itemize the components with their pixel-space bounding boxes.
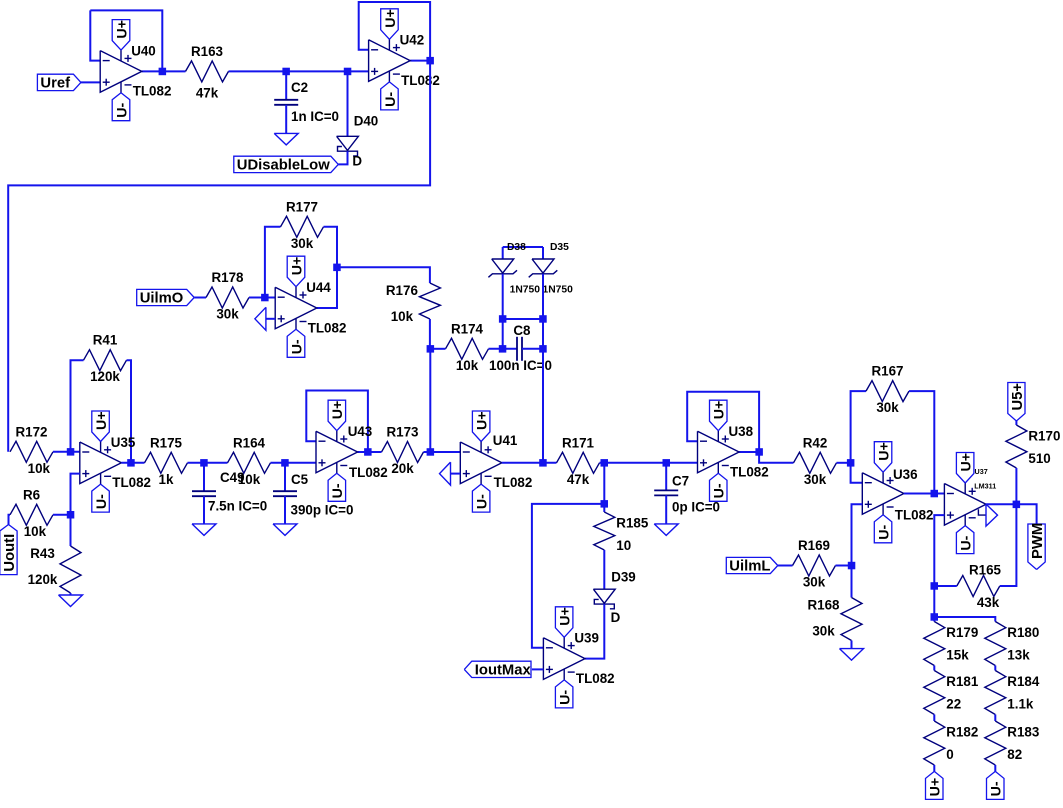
wire D40 to UDisableLow xyxy=(338,151,347,164)
svg-text:20k: 20k xyxy=(391,461,414,476)
svg-text:U44: U44 xyxy=(306,280,331,295)
power flag U+ xyxy=(328,400,346,431)
svg-text:C2: C2 xyxy=(291,80,308,95)
svg-text:R169: R169 xyxy=(798,538,830,553)
svg-text:R173: R173 xyxy=(386,425,418,440)
wire U36 out to U37 -in xyxy=(904,493,945,495)
junction xyxy=(67,448,75,456)
resistor R179 xyxy=(924,622,979,666)
wire R170 to output node xyxy=(1015,468,1017,504)
wire U43 feedback xyxy=(306,391,368,453)
svg-text:U-: U- xyxy=(989,781,1005,796)
wire D38 to node row xyxy=(502,274,504,319)
svg-text:U+: U+ xyxy=(877,442,893,461)
wire up to R41 xyxy=(71,360,84,452)
wire R184 to R183 xyxy=(994,715,996,722)
svg-text:0: 0 xyxy=(946,747,953,762)
svg-text:TL082: TL082 xyxy=(401,73,440,88)
op-amp U44 xyxy=(275,287,317,330)
power flag U+ xyxy=(926,771,944,799)
wire to D35 xyxy=(542,247,544,259)
resistor R180 xyxy=(985,622,1040,666)
svg-text:R43: R43 xyxy=(30,546,55,561)
op-amp U36 xyxy=(862,472,904,515)
ground xyxy=(274,133,298,145)
net label UoutI xyxy=(0,525,18,575)
svg-text:C7: C7 xyxy=(672,474,689,489)
svg-text:UDisableLow: UDisableLow xyxy=(237,158,330,174)
power flag U- xyxy=(555,680,573,708)
wire U42 output xyxy=(410,60,430,62)
svg-text:22: 22 xyxy=(946,697,961,712)
wire C5 to ground xyxy=(284,496,286,524)
svg-text:R181: R181 xyxy=(946,674,979,689)
svg-text:U-: U- xyxy=(94,494,110,509)
junction xyxy=(848,562,856,570)
svg-text:390p IC=0: 390p IC=0 xyxy=(291,503,354,518)
svg-text:R42: R42 xyxy=(803,435,828,450)
svg-text:Uref: Uref xyxy=(40,76,70,92)
svg-text:13k: 13k xyxy=(1007,648,1030,663)
resistor R178 xyxy=(206,270,249,322)
resistor R164 xyxy=(228,435,271,487)
ground xyxy=(192,524,216,536)
wire node to R185 xyxy=(603,504,605,512)
wire down to C8 left xyxy=(502,319,504,349)
svg-text:U+: U+ xyxy=(330,401,346,420)
svg-text:TL082: TL082 xyxy=(730,464,769,479)
ground xyxy=(273,524,297,536)
resistor R172 xyxy=(10,424,53,476)
svg-text:R167: R167 xyxy=(871,364,903,379)
svg-text:C5: C5 xyxy=(291,472,309,487)
resistor R175 xyxy=(145,435,188,487)
svg-text:1N750: 1N750 xyxy=(510,285,541,296)
junction xyxy=(1013,501,1021,509)
net label PWM xyxy=(1028,523,1046,570)
svg-text:R6: R6 xyxy=(23,487,40,502)
wire U40 feedback to -in xyxy=(90,10,100,60)
wire U5+ to R170 xyxy=(1015,421,1017,425)
svg-text:1n IC=0: 1n IC=0 xyxy=(291,109,339,124)
svg-text:R163: R163 xyxy=(191,44,223,59)
wire U38 output xyxy=(739,451,759,453)
wire to C7 xyxy=(665,463,667,491)
wire D35 to node row xyxy=(542,274,544,319)
junction xyxy=(261,294,269,302)
zener diode D38 xyxy=(488,242,540,296)
wire to D38 xyxy=(502,247,504,259)
svg-text:510: 510 xyxy=(1028,451,1050,466)
wire node to R168 xyxy=(851,566,853,598)
wire C49 to ground xyxy=(203,496,205,524)
junction xyxy=(847,459,855,467)
svg-text:43k: 43k xyxy=(977,595,1000,610)
svg-text:U+: U+ xyxy=(94,411,110,430)
wire R6 to node xyxy=(53,514,71,516)
svg-text:U-: U- xyxy=(330,483,346,498)
svg-text:TL082: TL082 xyxy=(349,465,388,480)
wire R168 to ground xyxy=(851,641,853,649)
resistor R163 xyxy=(186,44,229,101)
svg-text:D38: D38 xyxy=(507,242,526,253)
svg-text:U35: U35 xyxy=(111,435,136,450)
wire R182 to U+ flag xyxy=(933,765,935,771)
resistor R181 xyxy=(924,671,979,715)
wire R172 to U35 -in xyxy=(53,451,80,453)
svg-text:TL082: TL082 xyxy=(895,508,934,523)
svg-text:30k: 30k xyxy=(803,575,826,590)
svg-text:U+: U+ xyxy=(712,401,728,420)
wire to R177 xyxy=(265,227,281,298)
svg-text:U36: U36 xyxy=(893,467,918,482)
wire node to R180 xyxy=(934,617,995,622)
svg-text:15k: 15k xyxy=(946,648,969,663)
power flag U+ xyxy=(381,9,399,40)
svg-text:1k: 1k xyxy=(159,472,174,487)
svg-text:U+: U+ xyxy=(383,9,399,28)
zener diode D35 xyxy=(529,242,573,296)
resistor R182 xyxy=(924,721,979,765)
svg-text:U41: U41 xyxy=(493,433,518,448)
svg-text:U42: U42 xyxy=(400,33,425,48)
svg-text:U+: U+ xyxy=(959,453,975,472)
wire UilmL to R169 xyxy=(778,565,793,567)
power flag U- xyxy=(112,93,130,121)
svg-text:30k: 30k xyxy=(804,472,827,487)
svg-text:30k: 30k xyxy=(216,307,239,322)
svg-text:R179: R179 xyxy=(946,625,978,640)
wire U44 out to R176 xyxy=(337,267,430,283)
wire R169 to node xyxy=(836,565,852,567)
power flag U- xyxy=(956,526,974,554)
junction xyxy=(931,613,939,621)
wire to D40 xyxy=(347,71,349,136)
svg-text:7.5n IC=0: 7.5n IC=0 xyxy=(208,499,267,514)
wire C8 to right node xyxy=(522,348,543,350)
svg-text:R171: R171 xyxy=(562,435,595,450)
svg-text:U+: U+ xyxy=(475,411,491,430)
resistor R167 xyxy=(866,364,909,416)
resistor R184 xyxy=(985,671,1040,715)
svg-text:R174: R174 xyxy=(451,321,484,336)
wire R173 to U41 -in xyxy=(424,451,461,453)
svg-text:R176: R176 xyxy=(386,283,418,298)
svg-text:D39: D39 xyxy=(611,570,636,585)
wire D38-D35 tops xyxy=(503,246,543,248)
svg-text:U-: U- xyxy=(383,92,399,107)
wire R174 to C8 xyxy=(489,348,518,350)
wire up to R167 xyxy=(851,391,866,463)
node U40 output row xyxy=(142,70,186,72)
svg-text:U-: U- xyxy=(114,102,130,117)
resistor R173 xyxy=(382,425,424,477)
wire U35 +in down xyxy=(71,474,80,515)
wire R179 to R181 xyxy=(933,666,935,671)
junction xyxy=(426,57,434,65)
svg-text:U-: U- xyxy=(877,525,893,540)
wire output to PWM xyxy=(1016,504,1036,523)
power flag U+ xyxy=(555,607,573,638)
wire R171 to U38 +in xyxy=(600,462,698,464)
op-amp U42 xyxy=(369,39,411,82)
op-amp U38 xyxy=(698,431,740,474)
power flag U- xyxy=(987,771,1005,799)
junction xyxy=(364,448,372,456)
svg-text:30k: 30k xyxy=(812,624,835,639)
wire node to R43 xyxy=(70,515,72,546)
power flag U- xyxy=(381,82,399,110)
svg-text:R177: R177 xyxy=(286,199,318,214)
power flag U+ xyxy=(472,411,490,442)
resistor R185 xyxy=(594,512,649,553)
wire R167 to U36 out xyxy=(909,391,934,493)
wire ground to U41 +in xyxy=(451,473,461,475)
svg-text:R168: R168 xyxy=(807,598,840,613)
net label U5+ xyxy=(1008,383,1026,422)
svg-text:R183: R183 xyxy=(1007,725,1039,740)
wire R164 to U43 +in xyxy=(271,462,317,464)
svg-text:LM311: LM311 xyxy=(974,482,996,491)
wire R42 to node xyxy=(837,462,851,464)
wire U43 output xyxy=(358,451,368,453)
svg-text:30k: 30k xyxy=(876,400,899,415)
wire U37 output xyxy=(986,503,1016,505)
junction xyxy=(344,68,352,76)
wire to C5 xyxy=(284,463,286,491)
wire U41 out to R171 xyxy=(502,462,557,464)
wire R180 to R184 xyxy=(994,666,996,671)
wire node to R165 xyxy=(934,585,957,587)
junction xyxy=(67,511,75,519)
svg-text:TL082: TL082 xyxy=(133,84,172,99)
junction xyxy=(539,315,547,323)
svg-text:10k: 10k xyxy=(28,461,51,476)
svg-text:U-: U- xyxy=(475,494,491,509)
resistor R6 xyxy=(10,487,53,539)
wire node to R174 xyxy=(430,348,445,350)
ground xyxy=(986,504,998,526)
svg-text:UoutI: UoutI xyxy=(2,534,18,572)
wire UilmO to R178 xyxy=(194,297,206,299)
svg-text:R165: R165 xyxy=(969,563,1002,578)
wire ground to U44 +in xyxy=(266,318,275,320)
resistor R176 xyxy=(386,283,441,324)
svg-text:30k: 30k xyxy=(291,236,314,251)
ground xyxy=(840,649,864,661)
capacitor C8 xyxy=(489,323,552,373)
wire D39 to U39 out xyxy=(585,604,604,659)
wire R176 to node xyxy=(429,319,431,349)
power flag U+ xyxy=(112,20,130,50)
svg-text:10: 10 xyxy=(616,538,631,553)
power flag U+ xyxy=(710,400,728,431)
power flag U- xyxy=(92,484,110,512)
wire R177 to output node xyxy=(324,227,338,267)
svg-text:120k: 120k xyxy=(90,369,120,384)
svg-text:D: D xyxy=(611,610,621,625)
resistor R165 xyxy=(957,563,1002,611)
wire R176 node down to U41 -in xyxy=(429,349,431,452)
svg-text:82: 82 xyxy=(1007,747,1022,762)
wire IoutMax to U39 +in xyxy=(532,668,544,670)
svg-text:R178: R178 xyxy=(211,270,244,285)
svg-text:IoutMax: IoutMax xyxy=(475,663,532,679)
svg-text:U38: U38 xyxy=(729,424,754,439)
wire down to divider node xyxy=(933,586,935,617)
power flag U+ xyxy=(956,453,974,484)
junction xyxy=(601,459,609,467)
svg-text:1N750: 1N750 xyxy=(543,285,574,296)
junction xyxy=(601,500,609,508)
resistor R171 xyxy=(557,435,600,487)
power flag U+ xyxy=(92,411,110,442)
wire R175 to R164 xyxy=(188,462,228,464)
resistor R174 xyxy=(446,321,489,373)
resistor R41 xyxy=(84,333,127,385)
wire R165 up to output xyxy=(1000,504,1017,586)
op-amp U43 xyxy=(316,431,358,474)
svg-text:TL082: TL082 xyxy=(112,475,151,490)
wire down to R185 node xyxy=(603,463,605,504)
svg-text:R185: R185 xyxy=(616,516,649,531)
ground xyxy=(440,462,451,485)
net label UDisableLow xyxy=(234,156,338,173)
wire U44 output up xyxy=(317,267,337,308)
wire node to R179 xyxy=(933,617,935,622)
junction xyxy=(159,68,167,76)
svg-text:R184: R184 xyxy=(1007,674,1040,689)
junction xyxy=(663,459,671,467)
op-amp U37 xyxy=(944,483,986,526)
comparator U37 open-collector output stage xyxy=(978,509,986,515)
svg-text:47k: 47k xyxy=(196,86,219,101)
junction xyxy=(427,345,435,353)
power flag U- xyxy=(710,473,728,501)
resistor R170 xyxy=(1006,425,1061,468)
svg-text:10k: 10k xyxy=(238,472,261,487)
wire down to C8 right xyxy=(542,319,544,349)
svg-text:R170: R170 xyxy=(1028,429,1060,444)
svg-text:U+: U+ xyxy=(558,607,574,626)
svg-text:UilmO: UilmO xyxy=(140,291,184,307)
wire R41 to U35 out xyxy=(127,360,132,463)
capacitor C7 xyxy=(654,474,720,515)
svg-text:U+: U+ xyxy=(289,257,305,276)
svg-text:R175: R175 xyxy=(150,435,183,450)
junction xyxy=(539,459,547,467)
wire node down to U36 -in xyxy=(851,463,863,483)
wire R181 to R182 xyxy=(933,715,935,722)
wire U40 feedback xyxy=(90,10,162,71)
svg-text:UilmL: UilmL xyxy=(729,559,770,575)
op-amp U39 xyxy=(543,637,585,680)
svg-text:U-: U- xyxy=(558,690,574,705)
op-amp U41 xyxy=(460,442,502,485)
wire U38 feedback xyxy=(687,392,759,452)
svg-text:120k: 120k xyxy=(28,572,58,587)
wire Uref to U40 +in xyxy=(81,81,100,83)
svg-text:U+: U+ xyxy=(114,20,130,39)
resistor R183 xyxy=(985,721,1040,765)
svg-text:47k: 47k xyxy=(567,472,590,487)
svg-text:1.1k: 1.1k xyxy=(1007,697,1034,712)
junction xyxy=(931,490,939,498)
wire to C2 xyxy=(285,71,287,99)
wire R43 to ground xyxy=(70,593,72,595)
capacitor C2 xyxy=(274,80,339,124)
svg-text:TL082: TL082 xyxy=(494,475,533,490)
power flag U- xyxy=(287,329,305,357)
junction xyxy=(755,448,763,456)
svg-text:10k: 10k xyxy=(391,309,414,324)
svg-text:U-: U- xyxy=(959,535,975,550)
svg-text:U43: U43 xyxy=(348,424,373,439)
op-amp U40 xyxy=(100,50,142,93)
svg-text:R182: R182 xyxy=(946,725,978,740)
wire R163 to U42 +in xyxy=(229,70,369,72)
svg-text:10k: 10k xyxy=(456,358,479,373)
wire R183 to U- flag xyxy=(994,765,996,771)
svg-text:U5+: U5+ xyxy=(1010,383,1026,411)
ground xyxy=(654,524,678,536)
svg-text:R180: R180 xyxy=(1007,625,1039,640)
wire U36 +in down xyxy=(852,504,863,565)
junction xyxy=(200,459,208,467)
junction xyxy=(281,459,289,467)
wire U38 out down to R42 xyxy=(759,452,793,463)
wire U42 out long run to R172 xyxy=(8,61,430,452)
junction xyxy=(499,345,507,353)
junction xyxy=(282,68,290,76)
capacitor C5 xyxy=(273,472,353,518)
ground xyxy=(255,307,266,330)
svg-text:D40: D40 xyxy=(354,114,379,129)
net label UilmO xyxy=(137,289,195,306)
svg-text:C8: C8 xyxy=(513,323,531,338)
wire U42 feedback xyxy=(359,2,430,61)
wire R178 to U44 -in xyxy=(249,297,275,299)
net label Uref xyxy=(37,74,81,91)
svg-text:PWM: PWM xyxy=(1030,523,1046,559)
junction xyxy=(499,315,507,323)
junction xyxy=(333,264,341,272)
capacitor C49 xyxy=(192,470,267,514)
svg-text:U40: U40 xyxy=(131,43,156,58)
junction xyxy=(931,582,939,590)
svg-text:R172: R172 xyxy=(15,424,47,439)
power flag U- xyxy=(874,515,892,543)
resistor R169 xyxy=(793,538,836,590)
power flag U- xyxy=(328,473,346,501)
svg-text:TL082: TL082 xyxy=(576,671,615,686)
net label UilmL xyxy=(726,557,778,574)
wire U35 out xyxy=(121,462,144,464)
wire C2 to ground xyxy=(285,105,287,134)
resistor R177 xyxy=(281,199,324,251)
wire R185 to D39 xyxy=(603,550,605,589)
svg-text:D35: D35 xyxy=(550,242,569,253)
svg-text:U39: U39 xyxy=(574,631,599,646)
svg-text:U+: U+ xyxy=(928,778,944,797)
schottky diode D40 xyxy=(337,114,379,169)
wire node to U39 -in xyxy=(532,504,604,648)
power flag U+ xyxy=(874,442,892,473)
ground xyxy=(59,595,83,607)
resistor R43 xyxy=(28,546,81,593)
wire U37 +in down xyxy=(934,515,944,586)
svg-text:U-: U- xyxy=(289,339,305,354)
